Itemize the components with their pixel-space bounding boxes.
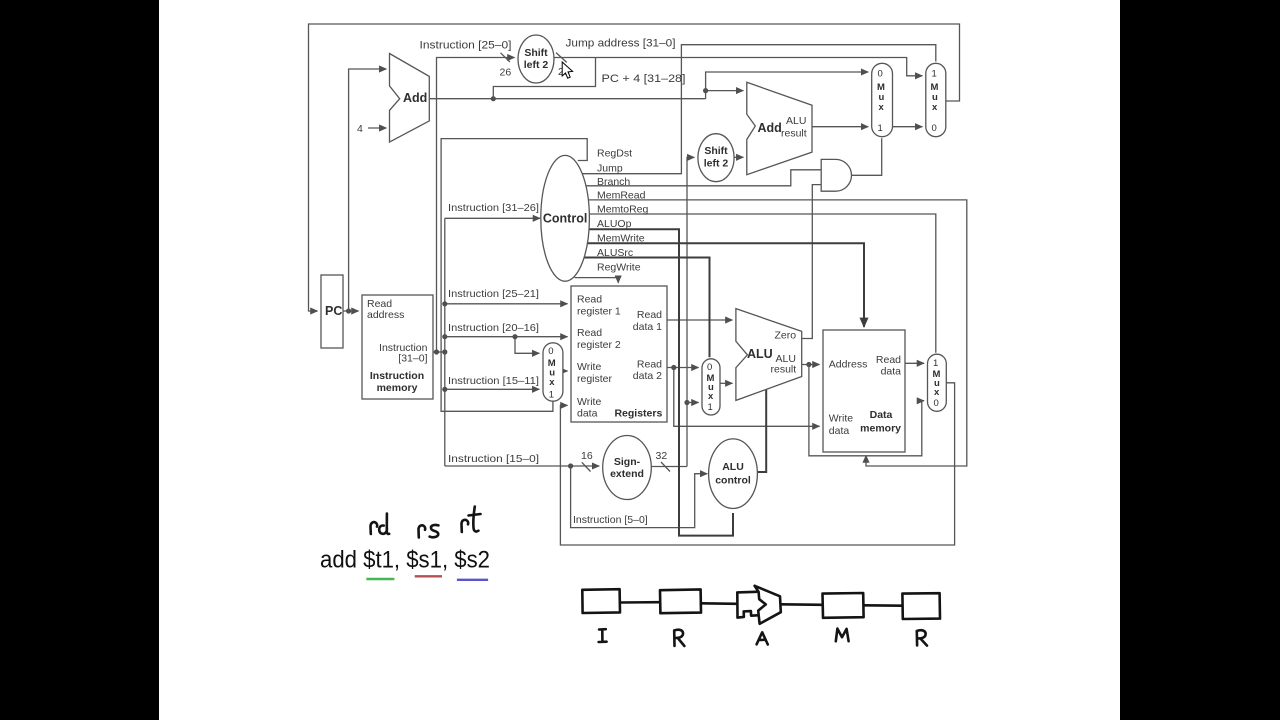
svg-text:ALU: ALU: [786, 115, 806, 127]
mouse cursor: [562, 62, 572, 78]
wire: ALUOp control loop to ALU control: [578, 229, 734, 535]
svg-text:Address: Address: [829, 359, 868, 371]
wire: Instruction [5-0] to ALU control: [571, 466, 708, 528]
sketch wire A-M: [781, 603, 822, 606]
svg-text:Read: Read: [577, 294, 602, 306]
svg-text:x: x: [932, 102, 938, 113]
pin width 28: [556, 53, 570, 78]
svg-text:data: data: [829, 425, 850, 437]
ALUSrc mux: [702, 359, 720, 415]
svg-text:32: 32: [656, 450, 668, 462]
node: Read data 2 junction: [671, 365, 676, 370]
sketch wire R-A: [701, 602, 737, 605]
sketch letter R2: [917, 630, 927, 645]
write-register mux (RegDst): [543, 343, 563, 401]
label Instruction [5-0]: [573, 514, 648, 526]
wire: jump address from shift left 2 to jump mux input 1: [554, 58, 922, 76]
node: tap 25-21: [442, 301, 447, 306]
node: ALU result junction: [806, 362, 811, 367]
shift left 2 (jump): [518, 35, 554, 83]
blue underline rt field: [457, 579, 488, 581]
label Instruction [15-0]: [448, 453, 539, 465]
svg-text:1: 1: [549, 390, 554, 401]
svg-text:4: 4: [357, 123, 363, 135]
svg-text:[31–0]: [31–0]: [398, 353, 427, 365]
svg-text:left 2: left 2: [704, 158, 729, 170]
label Instruction [20-16]: [448, 322, 539, 334]
svg-text:left 2: left 2: [524, 59, 549, 71]
wire: PC+4 to branch mux input 0: [706, 72, 869, 91]
label Instruction [25-0]: [420, 40, 512, 52]
wire: RegWrite control into Registers: [575, 278, 619, 283]
wire: Instruction [20-16] to Read register 2: [445, 336, 568, 338]
svg-text:Instruction [25–0]: Instruction [25–0]: [420, 40, 512, 52]
handwritten rt: [462, 507, 481, 533]
wire: Read data 2 to ALUSrc mux input 0: [667, 367, 699, 369]
wire: Instruction [25-0] up and to Shift left 2: [437, 58, 515, 353]
svg-text:0: 0: [878, 69, 883, 80]
sketch stage box M: [823, 593, 864, 618]
wire: MemtoReg control to memory mux select: [584, 214, 936, 353]
svg-text:MemRead: MemRead: [597, 190, 646, 202]
wire: Zero output to AND gate: [802, 185, 822, 339]
sketch stage box R2: [902, 593, 940, 619]
green underline rd field: [366, 578, 394, 580]
label PC + 4 [31-28]: [602, 73, 686, 85]
svg-text:Instruction [5–0]: Instruction [5–0]: [573, 514, 648, 526]
wire: ALUSrc control to ALUSrc mux select: [571, 258, 710, 358]
svg-text:Shift: Shift: [704, 145, 728, 157]
svg-text:MemWrite: MemWrite: [597, 233, 645, 245]
svg-text:Instruction [15–0]: Instruction [15–0]: [448, 453, 539, 465]
svg-text:register: register: [577, 373, 613, 385]
svg-text:Instruction [25–21]: Instruction [25–21]: [448, 288, 539, 300]
label MemtoReg: [597, 204, 649, 216]
node: instruction bus junction b: [442, 349, 447, 354]
svg-text:PC + 4 [31–28]: PC + 4 [31–28]: [602, 73, 686, 85]
sketch letter I: [599, 629, 607, 642]
svg-text:ALU: ALU: [747, 347, 773, 361]
wire: ALUSrc mux output to ALU: [720, 382, 732, 384]
svg-text:Add: Add: [403, 91, 427, 105]
wire: sign-extend to ALUSrc mux input 1: [687, 402, 699, 404]
sketch letter M2: [836, 629, 849, 642]
svg-text:1: 1: [932, 69, 937, 80]
svg-text:address: address: [367, 309, 404, 321]
svg-text:data: data: [577, 408, 598, 420]
node: tap 20-16: [442, 334, 447, 339]
svg-text:x: x: [934, 387, 940, 398]
svg-text:Read: Read: [876, 354, 901, 366]
label Branch: [597, 176, 630, 188]
ALU control: [709, 439, 758, 509]
sketch wire M-R: [864, 604, 902, 607]
svg-text:Write: Write: [577, 396, 601, 408]
wire: branch adder ALU result to branch mux input 1: [812, 126, 868, 128]
svg-text:ALU: ALU: [722, 461, 744, 473]
wire: Instruction [15-11] to write-register mux input 1: [445, 388, 540, 390]
svg-text:Shift: Shift: [524, 47, 548, 59]
svg-text:1: 1: [708, 402, 713, 413]
node: instruction bus junction a: [434, 349, 439, 354]
svg-text:0: 0: [932, 123, 937, 134]
registers file: [571, 286, 667, 422]
svg-text:result: result: [771, 364, 797, 376]
node: 20-16 branch junction: [512, 334, 517, 339]
wire: Instruction [25-21] to Read register 1: [445, 303, 568, 305]
svg-text:0: 0: [707, 362, 712, 373]
svg-text:0: 0: [934, 398, 939, 409]
svg-text:Sign-: Sign-: [614, 456, 641, 468]
svg-text:Write: Write: [829, 413, 853, 425]
sketch letter R1: [674, 630, 684, 646]
wire: Read data 1 to ALU: [667, 319, 732, 321]
instruction text add $t1, $s1, $s2: [320, 547, 490, 574]
svg-text:Read: Read: [577, 327, 602, 339]
svg-text:data 2: data 2: [633, 370, 662, 382]
svg-text:Jump address [31–0]: Jump address [31–0]: [566, 38, 676, 50]
wire: PC output to instruction memory Read address: [343, 310, 359, 312]
sketch stage box R: [660, 589, 701, 613]
wire: Branch control to AND gate: [580, 170, 822, 186]
svg-text:Instruction [20–16]: Instruction [20–16]: [448, 322, 539, 334]
label ALUOp: [597, 218, 632, 230]
node: sign-extend output junction: [684, 400, 689, 405]
shift left 2 (branch): [698, 134, 734, 182]
sketch wire I-R: [620, 601, 659, 604]
label MemRead: [597, 190, 646, 202]
pin width 32: [656, 450, 671, 472]
jump mux: [926, 63, 946, 136]
svg-text:result: result: [781, 128, 807, 140]
label ALUSrc: [597, 247, 633, 259]
svg-text:extend: extend: [610, 468, 644, 480]
svg-text:Instruction [31–26]: Instruction [31–26]: [448, 202, 539, 214]
node: 15-0 junction: [568, 463, 573, 468]
wire: PC+4 [31-28] up to jump address: [493, 58, 595, 99]
svg-text:ALUOp: ALUOp: [597, 218, 632, 230]
label RegDst: [597, 148, 632, 160]
wire: Instruction [31-26] to Control: [445, 217, 540, 219]
ALU: [736, 309, 802, 401]
value 4: [357, 123, 363, 135]
label Jump address [31-0]: [566, 38, 676, 50]
svg-text:Jump: Jump: [597, 163, 623, 175]
svg-text:memory: memory: [860, 423, 901, 435]
svg-text:RegDst: RegDst: [597, 148, 632, 160]
wire: Instruction [20-16] down to write-register mux input 0: [515, 337, 539, 354]
wire: instruction field tap bus vertical: [444, 218, 446, 466]
label Instruction [25-21]: [448, 288, 539, 300]
wire: PC+4 to branch adder top input: [706, 91, 744, 99]
svg-text:Read: Read: [637, 358, 662, 370]
memory mux (MemtoReg): [928, 354, 947, 411]
wire: Sign-extend output riser to shift left 2: [651, 157, 694, 466]
label Instruction [15-11]: [448, 375, 539, 387]
svg-text:Branch: Branch: [597, 176, 630, 188]
wire: memory mux output write-back loop to Write data: [560, 383, 954, 545]
adder Add (PC+4): [390, 54, 430, 143]
white slide area: [159, 0, 1120, 720]
wire: ALU control output to ALU operation input: [756, 389, 767, 472]
svg-text:control: control: [715, 475, 751, 487]
pin width 26: [500, 53, 512, 79]
svg-text:Data: Data: [870, 409, 893, 421]
wire: PC-source loop from jump mux output around top-left into PC: [309, 24, 960, 311]
red underline rs field: [415, 575, 442, 577]
svg-text:Instruction [15–11]: Instruction [15–11]: [448, 375, 539, 387]
label Instruction [31-26]: [448, 202, 539, 214]
wire: Read data to memory mux input 1: [905, 362, 924, 364]
wire: write-register mux output to Write register: [563, 370, 568, 372]
handwritten rs: [419, 525, 439, 538]
label Jump: [597, 163, 623, 175]
svg-text:Read: Read: [637, 309, 662, 321]
wire: instruction memory output bus: [433, 351, 445, 353]
svg-text:Write: Write: [577, 361, 601, 373]
svg-text:RegWrite: RegWrite: [597, 262, 641, 274]
adder Add ALU result (branch): [747, 82, 812, 174]
svg-text:x: x: [708, 391, 714, 402]
svg-text:1: 1: [933, 358, 938, 369]
sketch stage box I: [582, 589, 620, 613]
svg-text:PC: PC: [325, 304, 342, 318]
svg-text:data 1: data 1: [633, 321, 662, 333]
svg-text:16: 16: [581, 450, 593, 462]
wire: Instruction [15-0] to Sign-extend: [445, 465, 599, 467]
wire: PC value up to Add input: [349, 69, 387, 311]
svg-text:ALUSrc: ALUSrc: [597, 247, 633, 259]
handwritten rd: [371, 514, 390, 535]
label RegWrite: [597, 262, 641, 274]
svg-text:Instruction: Instruction: [370, 370, 424, 382]
svg-text:add $t1, $s1, $s2: add $t1, $s1, $s2: [320, 547, 490, 574]
wire: MemRead control loop to data memory bottom: [582, 200, 967, 466]
svg-text:register 1: register 1: [577, 306, 621, 318]
PC register: [321, 275, 343, 348]
wire: branch mux output to jump mux input 0: [893, 126, 923, 128]
wire: ALU result to data memory Address: [802, 364, 820, 366]
node: PC+4 junction: [491, 96, 496, 101]
wire: RegDst control loop down to write-register mux select: [441, 139, 587, 412]
svg-text:Zero: Zero: [775, 330, 797, 342]
node: tap 15-11: [442, 387, 447, 392]
svg-text:memory: memory: [377, 382, 418, 394]
pin width 16: [581, 450, 593, 472]
wire: constant 4 into Add: [368, 127, 386, 129]
sketch letter A: [757, 632, 768, 644]
svg-text:1: 1: [878, 123, 883, 134]
wire: Read data 2 down to data memory Write data: [674, 368, 820, 427]
wire: Add (PC+4) output: [429, 98, 705, 100]
svg-text:x: x: [549, 377, 555, 388]
wire: Jump control up over to jump mux select: [574, 45, 936, 174]
instruction memory: [362, 295, 433, 399]
svg-text:data: data: [881, 366, 902, 378]
control unit: [541, 155, 590, 281]
wire: AND gate output to branch mux select: [852, 138, 882, 175]
sketch ALU shape A: [737, 586, 781, 624]
data memory: [823, 330, 905, 452]
svg-text:x: x: [879, 102, 885, 113]
wire: shift left 2 output to branch adder: [734, 156, 743, 158]
branch mux: [872, 63, 893, 136]
svg-text:Registers: Registers: [614, 408, 662, 420]
node: PC output junction: [346, 308, 351, 313]
svg-text:register 2: register 2: [577, 339, 621, 351]
node: PC+4 branch junction: [703, 88, 708, 93]
svg-text:Control: Control: [543, 212, 587, 226]
AND gate (branch taken): [821, 159, 851, 191]
svg-text:26: 26: [500, 67, 512, 79]
svg-text:0: 0: [548, 346, 553, 357]
sign-extend: [603, 436, 652, 500]
svg-text:MemtoReg: MemtoReg: [597, 204, 649, 216]
label MemWrite: [597, 233, 645, 245]
wire: ALU result bypass to memory mux input 0: [809, 365, 924, 456]
svg-text:Add: Add: [758, 121, 782, 135]
wire: MemWrite control to data memory top: [573, 243, 864, 327]
